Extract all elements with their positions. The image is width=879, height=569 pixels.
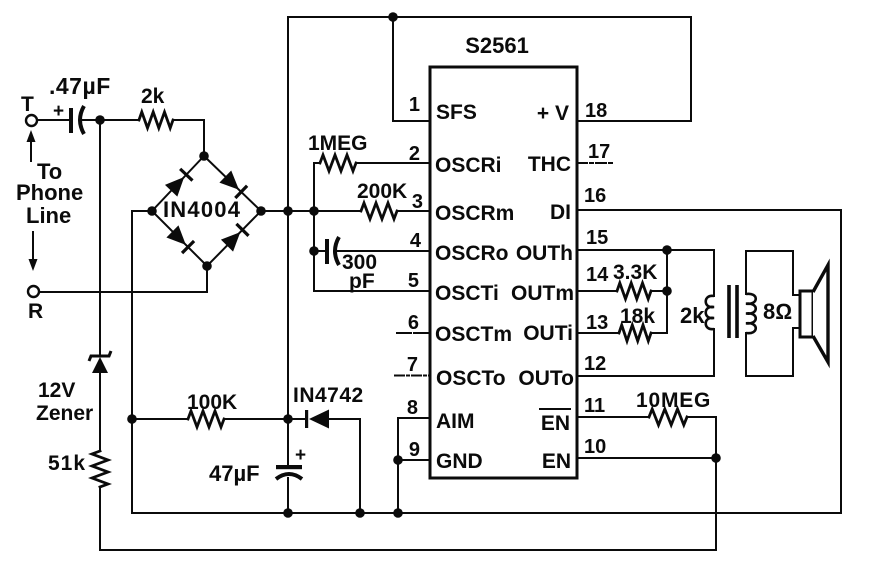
svg-text:OSCRo: OSCRo	[435, 242, 509, 265]
svg-text:R: R	[28, 300, 43, 323]
terminal R	[28, 286, 43, 323]
resistor 200K	[314, 180, 430, 219]
transformer T1 core	[729, 285, 737, 338]
wire pin 6 stub	[397, 332, 430, 334]
node supply/bridge junction	[283, 206, 293, 216]
bridge rectifier IN4004 diamond wires	[152, 156, 261, 266]
overline for EN pin 11	[540, 408, 570, 410]
svg-text:47µF: 47µF	[209, 461, 260, 486]
svg-text:5: 5	[408, 270, 419, 292]
bridge diode D4 bottom-right	[221, 223, 250, 252]
svg-text:10MEG: 10MEG	[636, 389, 711, 412]
wire 3.3K/18k tie vertical	[666, 250, 668, 333]
svg-text:8Ω: 8Ω	[763, 299, 792, 324]
svg-text:2: 2	[409, 143, 420, 165]
svg-text:OSCTi: OSCTi	[435, 282, 499, 305]
svg-text:DI: DI	[550, 201, 571, 224]
svg-text:T: T	[21, 93, 34, 116]
svg-text:4: 4	[410, 230, 422, 252]
node bridge bottom vertex	[202, 261, 212, 271]
node IN4742 ground junction	[355, 508, 365, 518]
speaker LS1 8 ohm	[763, 265, 828, 362]
svg-text:EN: EN	[542, 450, 571, 473]
resistor 51k	[48, 451, 108, 487]
transformer T1 primary coil	[680, 296, 714, 329]
node bridge right vertex	[256, 206, 266, 216]
resistor 2k	[139, 85, 173, 128]
svg-text:OUTm: OUTm	[511, 282, 574, 305]
bridge diode D1 top-left	[165, 168, 194, 197]
node A junction	[95, 115, 105, 125]
svg-text:OUTo: OUTo	[518, 367, 574, 390]
svg-text:+: +	[53, 101, 64, 122]
wire T to capacitor C1	[37, 119, 70, 121]
svg-text:9: 9	[409, 439, 420, 461]
svg-text:1: 1	[409, 94, 420, 116]
IC U1 S2561 body	[430, 33, 577, 478]
svg-text:Line: Line	[26, 203, 71, 228]
wire node A to resistor 2k	[100, 119, 139, 121]
capacitor C1 .47uF	[49, 73, 111, 134]
svg-text:51k: 51k	[48, 452, 86, 475]
svg-text:3: 3	[412, 191, 423, 213]
svg-text:OUTi: OUTi	[523, 322, 573, 345]
wire secondary bottom to speaker	[746, 328, 801, 376]
IC pin labels left column	[435, 101, 514, 473]
svg-text:6: 6	[408, 312, 419, 334]
wire pin 1 feed	[393, 17, 430, 121]
label To Phone Line	[16, 159, 83, 228]
wire 2k to bridge top	[173, 120, 204, 156]
bridge diode D2 top-right	[219, 170, 248, 199]
svg-text:GND: GND	[436, 450, 483, 473]
node bridge left vertex	[147, 206, 157, 216]
wire pin 10 EN row	[577, 457, 716, 459]
node top rail junction	[388, 12, 398, 22]
svg-text:EN: EN	[541, 412, 570, 435]
IC pin labels right column	[511, 102, 574, 473]
svg-text:IN4742: IN4742	[293, 384, 364, 407]
wire left branch down to ground bus	[132, 419, 841, 513]
wire pin 16 DI to right rail	[577, 210, 841, 513]
svg-text:S2561: S2561	[465, 33, 529, 58]
svg-text:.47µF: .47µF	[49, 73, 111, 99]
svg-text:Phone: Phone	[16, 180, 83, 205]
node 100K left junction	[127, 414, 137, 424]
wire pin 12 OUTo row	[577, 329, 714, 376]
wire 100K to node C	[224, 418, 288, 420]
arrow up toward T	[27, 130, 36, 161]
bridge diode D3 bottom-left	[166, 225, 195, 254]
transformer T1 secondary coil	[746, 294, 756, 333]
svg-text:10: 10	[584, 436, 606, 458]
wire R to bridge bottom	[39, 266, 207, 292]
svg-text:13: 13	[586, 312, 608, 334]
svg-text:2k: 2k	[680, 303, 705, 328]
svg-text:+ V: + V	[537, 102, 569, 125]
wire C1 to node A	[83, 119, 100, 121]
svg-text:THC: THC	[528, 153, 571, 176]
svg-text:AIM: AIM	[436, 410, 475, 433]
svg-text:OUTh: OUTh	[516, 242, 573, 265]
svg-text:18k: 18k	[620, 305, 655, 328]
svg-text:IN4004: IN4004	[163, 197, 241, 222]
node 300pF junction	[309, 246, 319, 256]
diode IN4742	[288, 384, 364, 429]
capacitor C2 47uF	[209, 445, 306, 486]
node C junction 100K/IN4742/supply	[283, 414, 293, 424]
zener diode 12V vertical line upper	[99, 120, 101, 356]
node OUTh junction	[662, 245, 672, 255]
svg-text:18: 18	[585, 100, 607, 122]
wire pin 15 OUTh row	[577, 250, 714, 296]
wire 51k to bottom rail	[100, 487, 716, 550]
svg-text:Zener: Zener	[36, 402, 93, 425]
svg-text:OSCRi: OSCRi	[435, 154, 502, 177]
resistor 18k	[577, 305, 667, 341]
svg-text:12V: 12V	[38, 379, 75, 402]
node pin9 GND junction	[393, 455, 403, 465]
capacitor 300pF	[314, 237, 430, 293]
svg-text:200K: 200K	[357, 180, 407, 203]
svg-text:OSCTm: OSCTm	[435, 323, 512, 346]
wire 100K row left	[132, 418, 188, 420]
wire bridge right vertex to node B	[261, 210, 314, 212]
wire pin 9 row	[398, 459, 430, 461]
wire pin 8 AIM to ground branch	[398, 418, 430, 513]
wire vertical supply line left of IC	[287, 17, 289, 465]
wire top supply rail	[288, 16, 691, 18]
pin numbers left	[407, 94, 423, 461]
node C2 ground junction	[283, 508, 293, 518]
wire secondary top to speaker	[746, 251, 801, 295]
svg-text:11: 11	[584, 395, 605, 417]
node bridge top vertex	[199, 151, 209, 161]
wire C2 to ground bus	[287, 478, 289, 513]
svg-text:12: 12	[584, 353, 606, 375]
node B junction 200K row	[309, 206, 319, 216]
wire pin 5 row	[314, 290, 430, 292]
node OUTm junction	[662, 286, 672, 296]
wire IN4742 to ground bus	[359, 419, 361, 513]
svg-text:OSCRm: OSCRm	[435, 202, 514, 225]
zener diode 12V	[36, 351, 111, 425]
svg-text:pF: pF	[349, 270, 375, 293]
pin numbers right	[584, 100, 610, 458]
svg-text:2k: 2k	[141, 85, 165, 108]
svg-text:100K: 100K	[187, 391, 237, 414]
svg-text:+: +	[295, 445, 306, 466]
node EN junction	[711, 453, 721, 463]
resistor 3.3K	[577, 261, 667, 299]
svg-text:16: 16	[584, 185, 606, 207]
svg-text:17: 17	[588, 141, 610, 163]
svg-text:SFS: SFS	[436, 101, 477, 124]
wire pin 7 stub	[395, 375, 430, 377]
svg-text:8: 8	[407, 397, 418, 419]
svg-text:15: 15	[586, 227, 608, 249]
svg-text:1MEG: 1MEG	[308, 132, 368, 155]
wire bridge left vertex to 100K branch	[132, 211, 152, 419]
wire oscillator branch vertical	[313, 163, 315, 291]
resistor 100K	[187, 391, 237, 427]
wire pin 18 feed	[577, 17, 691, 121]
svg-text:14: 14	[586, 264, 609, 286]
svg-text:7: 7	[407, 354, 418, 376]
svg-text:OSCTo: OSCTo	[436, 367, 506, 390]
wire zener to 51k	[99, 373, 101, 451]
resistor 1MEG	[308, 132, 430, 171]
arrow down toward R	[29, 232, 38, 271]
resistor 10MEG	[577, 389, 716, 550]
wire pin 17 THC stub	[577, 162, 612, 164]
node ground bus AIM junction	[393, 508, 403, 518]
terminal T	[21, 93, 37, 126]
